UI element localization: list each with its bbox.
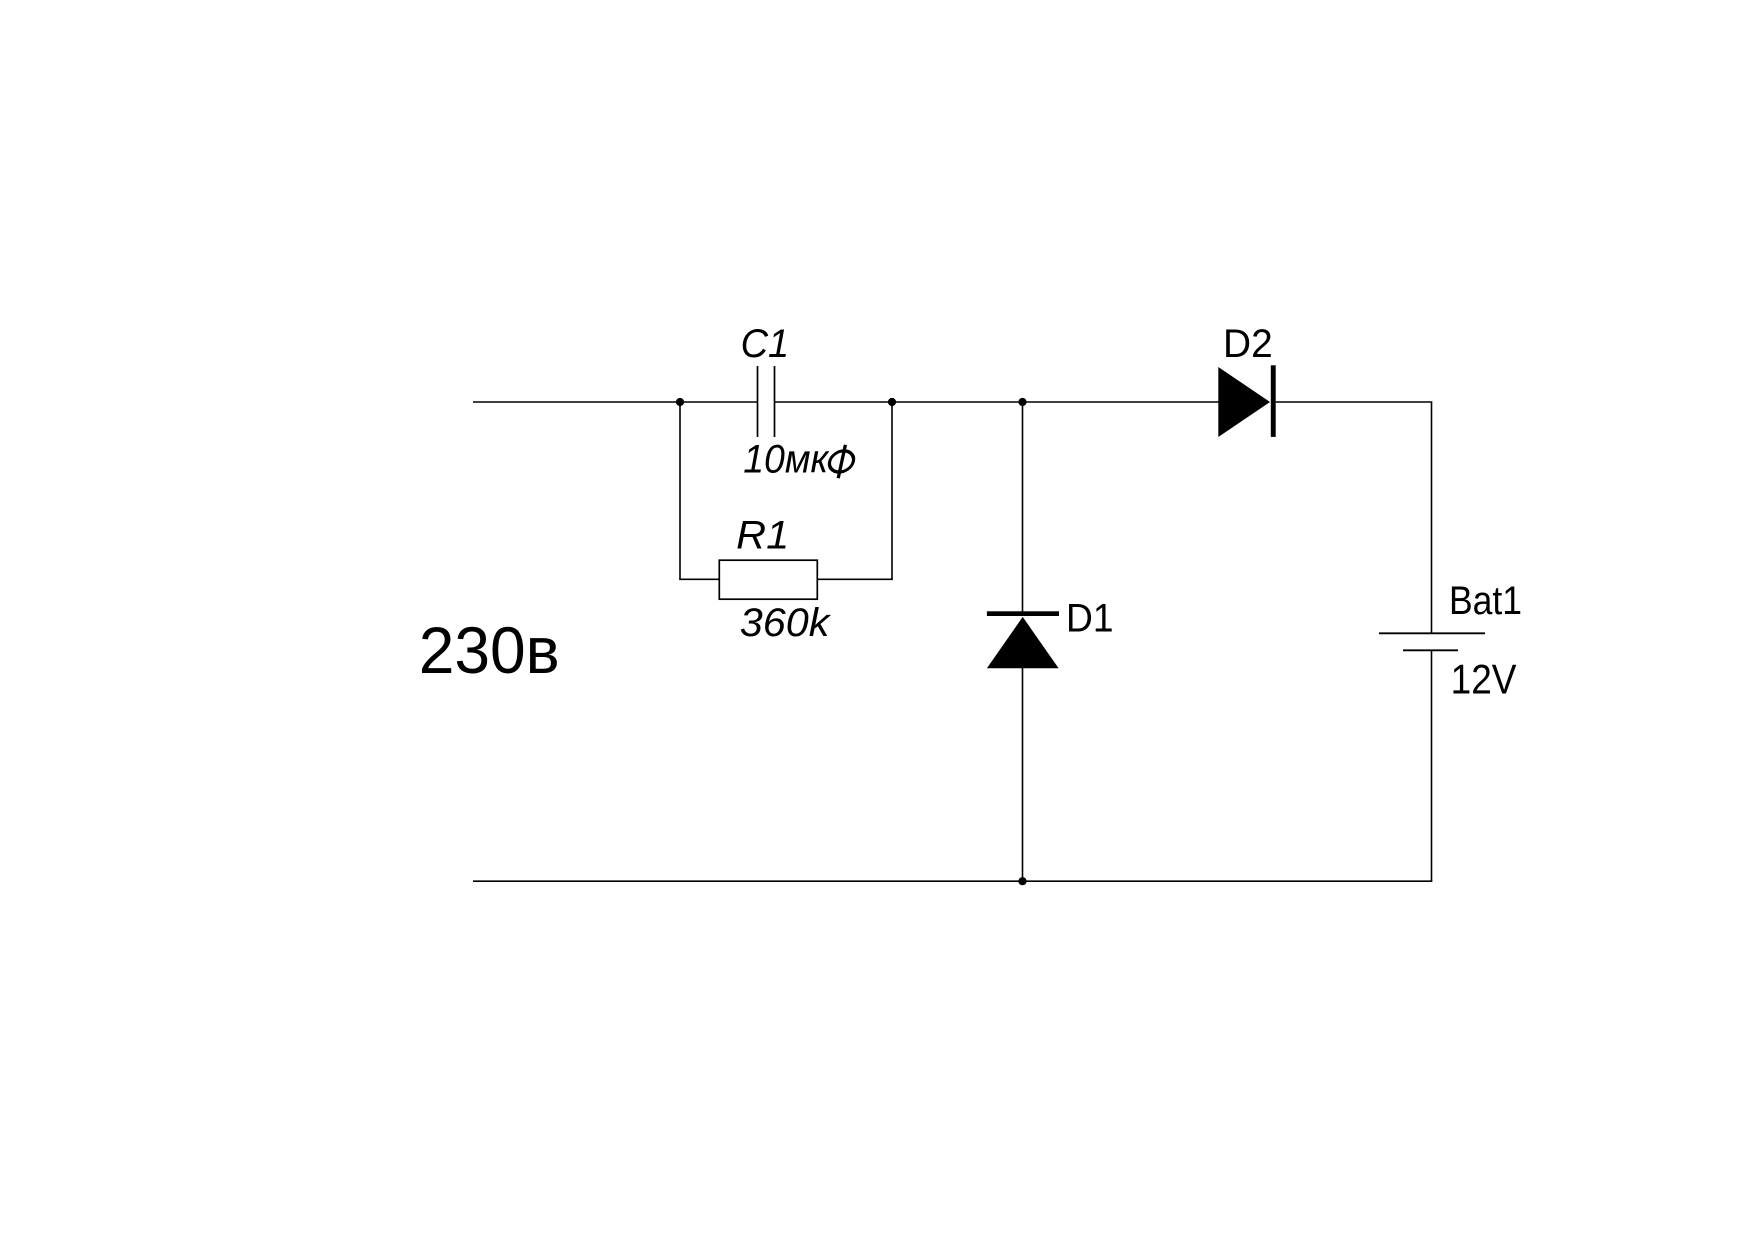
wire right vertical upper (to battery +)	[1431, 402, 1433, 633]
node A (junction C1 left / R1 branch)	[676, 398, 684, 406]
battery Bat1 (long positive plate)	[1379, 632, 1485, 634]
wire R1 branch left vertical	[679, 402, 681, 579]
node B (junction C1 right / R1 branch)	[888, 398, 896, 406]
wire bottom (return line)	[473, 880, 1432, 882]
wire D1 branch lower vertical	[1022, 668, 1024, 881]
wire R1 branch right vertical	[891, 402, 893, 579]
svg-text:D1: D1	[1066, 597, 1114, 641]
svg-text:230в: 230в	[419, 613, 560, 687]
svg-text:10мк: 10мк	[743, 438, 830, 482]
diode D2 (cathode bar)	[1271, 365, 1276, 437]
resistor R1	[719, 560, 817, 599]
value label 10мкф (ф stem)	[838, 445, 845, 478]
wire D1 branch upper vertical	[1022, 402, 1024, 612]
svg-text:12V: 12V	[1451, 655, 1517, 702]
wire R1 branch right horizontal	[817, 578, 893, 580]
diode D2 (triangle)	[1218, 367, 1270, 437]
svg-text:Bat1: Bat1	[1449, 579, 1522, 623]
diode D1 (cathode bar)	[987, 611, 1059, 616]
diode D1 (triangle)	[987, 617, 1059, 668]
wire R1 branch left horizontal	[679, 578, 719, 580]
svg-text:R1: R1	[736, 513, 789, 557]
value label 10мкф (ф bowl)	[827, 451, 855, 472]
wire top-right segment (D2 cathode to right corner)	[1276, 401, 1433, 403]
node C (junction D1 branch top)	[1018, 398, 1026, 406]
wire top-mid segment (C1 right plate to D2 anode)	[775, 401, 1220, 403]
battery Bat1 (short negative plate)	[1403, 649, 1458, 651]
wire top-left segment (AC input to C1 left plate)	[473, 401, 757, 403]
capacitor C1	[758, 366, 775, 437]
svg-text:360k: 360k	[740, 601, 832, 645]
svg-text:D2: D2	[1223, 322, 1273, 366]
node D (junction D1 branch bottom)	[1018, 877, 1026, 885]
svg-text:C1: C1	[741, 322, 790, 366]
wire right vertical lower (battery - to bottom wire)	[1431, 650, 1433, 881]
